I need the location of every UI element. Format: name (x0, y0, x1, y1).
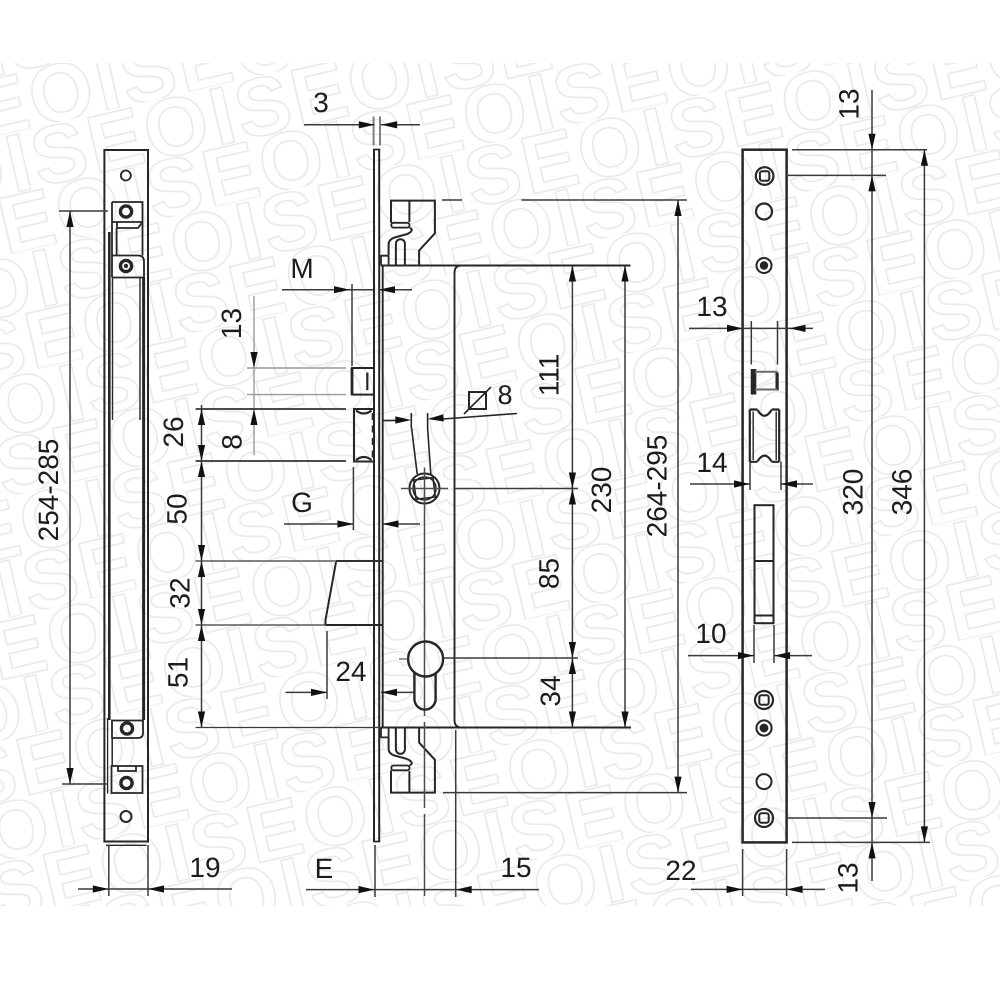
extra inner verticals near lower latches (111, 738, 113, 767)
top small circle (121, 171, 131, 181)
svg-text:254-285: 254-285 (33, 439, 64, 542)
vertical dim 264-295 at x=678 (442, 200, 687, 793)
13 top right (868, 134, 875, 150)
svg-text:34: 34 (535, 675, 566, 706)
bottom hook bolt (381, 728, 435, 793)
roller cutout (750, 410, 779, 462)
case bottom edge (381, 726, 631, 728)
follower center lines (401, 468, 448, 717)
svg-text:264-295: 264-295 (642, 435, 673, 538)
vertical dim 230 at x=625 (624, 266, 626, 728)
latch circle 2 (120, 260, 131, 271)
bottom small circle (121, 811, 132, 822)
svg-text:13: 13 (834, 88, 865, 119)
svg-text:22: 22 (665, 855, 696, 886)
roller edge extension lines (196, 409, 346, 461)
screw holes top (756, 167, 774, 185)
svg-text:85: 85 (534, 558, 565, 589)
faceplate side view (373, 150, 631, 842)
case top edge (381, 264, 631, 266)
deadbolt slot (755, 505, 774, 623)
dim 26 / 50 / 32 / 51 chain at x=201.5 (196, 405, 383, 728)
svg-text:50: 50 (162, 493, 193, 524)
svg-text:320: 320 (838, 469, 869, 516)
latch housing strip (112, 202, 143, 278)
svg-text:346: 346 (887, 469, 918, 516)
dim 14 (690, 462, 813, 491)
latch box 1 (112, 222, 143, 228)
svg-text:32: 32 (165, 577, 196, 608)
dimension 254-285 (59, 211, 108, 784)
13 bottom right (868, 842, 875, 858)
svg-text:51: 51 (163, 657, 194, 688)
dims 13 / 8 left cluster (247, 296, 346, 455)
svg-text:13: 13 (696, 291, 727, 322)
cylinder follower (410, 474, 440, 504)
case front line (382, 266, 384, 728)
lower latch box 4 (112, 766, 143, 793)
keyhole (408, 642, 443, 710)
vertical dims 111/85/34 at x=572.4 (399, 266, 578, 728)
svg-text:111: 111 (534, 354, 565, 397)
320 (868, 802, 875, 818)
svg-text:8: 8 (217, 434, 248, 450)
square 8 leader (383, 387, 517, 474)
svg-text:13: 13 (216, 308, 247, 339)
left bar outer rectangle (104, 150, 148, 842)
dimension 24 (286, 631, 414, 699)
svg-text:14: 14 (696, 447, 727, 478)
dim 10 (688, 625, 812, 663)
inner case wall (455, 266, 462, 728)
346 (921, 150, 928, 166)
latch circle 1 (120, 206, 131, 217)
dimension 19 (78, 845, 232, 896)
latch box 2 rounded (112, 256, 144, 278)
top hook bolt (381, 201, 435, 266)
faceplate front (743, 150, 787, 843)
svg-text:3: 3 (313, 87, 329, 118)
mushroom pin (352, 368, 374, 395)
svg-text:8: 8 (497, 380, 512, 410)
screw holes bottom (755, 691, 773, 709)
svg-text:10: 10 (695, 618, 726, 649)
square cutout (751, 369, 757, 395)
svg-text:G: G (291, 487, 313, 518)
right side extension lines (787, 90, 930, 881)
dim 13 mid right (689, 321, 813, 365)
svg-text:M: M (290, 253, 313, 284)
inner channel lines (108, 232, 111, 720)
dims E and 15 (306, 730, 539, 897)
svg-text:24: 24 (335, 656, 366, 687)
center line below keyhole (424, 722, 426, 896)
svg-text:E: E (315, 853, 334, 884)
svg-text:230: 230 (586, 467, 617, 514)
dimension G (284, 467, 420, 530)
dim 22 (691, 849, 825, 896)
svg-text:13: 13 (833, 862, 864, 893)
dimension M (282, 284, 412, 366)
svg-text:15: 15 (500, 852, 531, 883)
roller bolt (353, 409, 374, 462)
deadbolt (326, 561, 383, 625)
lower latch box 3 (112, 721, 143, 739)
svg-text:26: 26 (158, 416, 189, 447)
svg-text:19: 19 (189, 852, 220, 883)
dimension 3 (top) (374, 117, 380, 146)
